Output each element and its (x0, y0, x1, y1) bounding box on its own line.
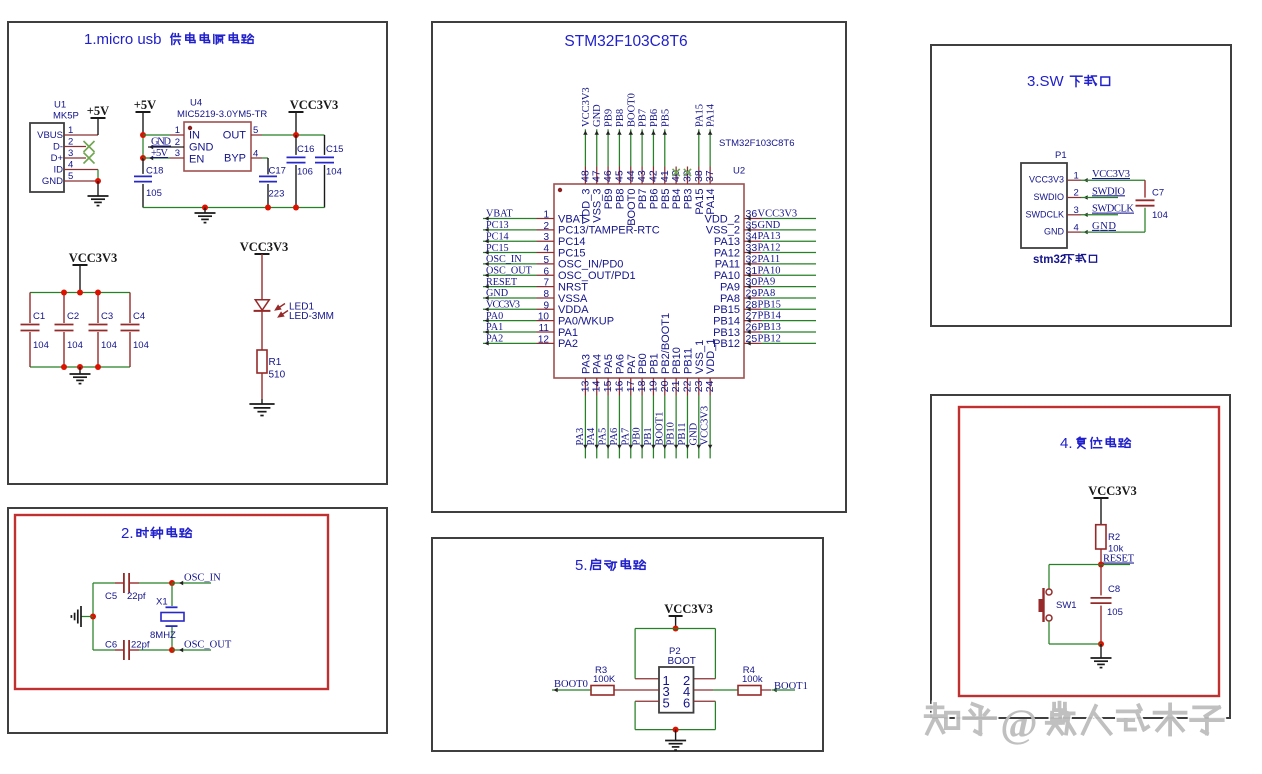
svg-text:23: 23 (693, 380, 705, 392)
svg-text:GND: GND (758, 220, 781, 231)
svg-text:2: 2 (1074, 188, 1079, 199)
svg-text:+5V: +5V (134, 98, 156, 112)
svg-text:PB7: PB7 (637, 189, 649, 210)
svg-text:BOOT1: BOOT1 (774, 681, 808, 692)
svg-text:SWDIO: SWDIO (1092, 186, 1125, 197)
svg-text:104: 104 (133, 340, 149, 351)
svg-text:PB6: PB6 (649, 109, 660, 127)
svg-text:104: 104 (101, 340, 117, 351)
svg-text:+5V: +5V (87, 104, 109, 118)
svg-text:VCC3V3: VCC3V3 (1029, 175, 1064, 185)
svg-text:PB7: PB7 (638, 109, 649, 127)
svg-text:STM32F103C8T6: STM32F103C8T6 (719, 138, 795, 149)
svg-text:PB14: PB14 (713, 315, 740, 327)
svg-text:22: 22 (681, 380, 693, 392)
svg-text:VSS_2: VSS_2 (706, 225, 740, 237)
svg-text:1: 1 (68, 125, 73, 136)
svg-text:223: 223 (269, 189, 285, 200)
svg-text:PA4: PA4 (592, 354, 604, 374)
svg-text:PA7: PA7 (626, 354, 638, 374)
svg-text:U1: U1 (54, 100, 66, 111)
svg-text:510: 510 (269, 370, 286, 381)
svg-text:PB4: PB4 (671, 189, 683, 210)
svg-text:GND: GND (592, 104, 603, 127)
svg-text:22pf: 22pf (131, 640, 150, 651)
svg-text:GND: GND (486, 288, 508, 299)
svg-text:105: 105 (1107, 607, 1123, 618)
svg-text:PA12: PA12 (714, 247, 740, 259)
svg-text:PA10: PA10 (714, 270, 740, 282)
svg-text:4: 4 (253, 149, 258, 160)
svg-text:@: @ (1000, 701, 1037, 746)
svg-text:+5V: +5V (151, 148, 168, 159)
svg-text:GND: GND (151, 137, 171, 148)
svg-text:SWDIO: SWDIO (1034, 192, 1065, 202)
svg-text:1.micro usb: 1.micro usb (84, 31, 162, 48)
svg-text:104: 104 (1152, 210, 1168, 221)
svg-text:3: 3 (175, 148, 180, 159)
svg-text:OUT: OUT (223, 130, 247, 142)
svg-text:PA13: PA13 (714, 236, 740, 248)
svg-text:9: 9 (543, 300, 549, 311)
svg-text:PB10: PB10 (671, 347, 683, 374)
svg-text:4: 4 (68, 160, 73, 171)
svg-text:15: 15 (602, 380, 614, 392)
svg-text:PA10: PA10 (758, 265, 781, 276)
svg-text:4: 4 (1074, 222, 1079, 233)
svg-text:5: 5 (253, 125, 258, 136)
svg-text:32: 32 (746, 253, 758, 265)
svg-text:1: 1 (543, 210, 549, 221)
svg-text:37: 37 (704, 170, 716, 182)
svg-text:VCC3V3: VCC3V3 (700, 406, 711, 446)
svg-text:48: 48 (579, 170, 591, 182)
svg-text:PB3: PB3 (682, 189, 694, 210)
svg-text:IN: IN (189, 130, 200, 142)
svg-text:PA6: PA6 (614, 354, 626, 374)
svg-text:43: 43 (636, 170, 648, 182)
svg-text:PB8: PB8 (614, 189, 626, 210)
svg-text:8MHZ: 8MHZ (150, 630, 176, 641)
svg-text:PB13: PB13 (758, 322, 781, 333)
svg-text:PA8: PA8 (758, 288, 776, 299)
svg-text:GND: GND (189, 142, 214, 154)
svg-text:VCC3V3: VCC3V3 (486, 300, 520, 311)
svg-text:PB10: PB10 (666, 422, 677, 445)
svg-text:PA13: PA13 (758, 231, 781, 242)
svg-text:8: 8 (543, 289, 549, 300)
svg-text:VCC3V3: VCC3V3 (1088, 484, 1137, 498)
svg-text:VCC3V3: VCC3V3 (664, 602, 713, 616)
svg-text:5: 5 (663, 696, 670, 711)
svg-text:2.: 2. (121, 525, 134, 542)
svg-text:PC13/TAMPER-RTC: PC13/TAMPER-RTC (558, 225, 660, 237)
svg-text:4.: 4. (1060, 435, 1073, 452)
svg-text:EN: EN (189, 154, 204, 166)
svg-text:4: 4 (543, 244, 549, 255)
svg-text:C5: C5 (105, 591, 117, 602)
svg-text:19: 19 (647, 380, 659, 392)
svg-text:2: 2 (175, 137, 180, 148)
svg-text:OSC_IN/PD0: OSC_IN/PD0 (558, 259, 623, 271)
svg-text:PC14: PC14 (558, 236, 586, 248)
svg-text:2: 2 (543, 221, 549, 232)
svg-text:24: 24 (704, 380, 716, 392)
svg-text:34: 34 (746, 231, 758, 243)
svg-text:U4: U4 (190, 98, 202, 109)
svg-text:28: 28 (746, 299, 758, 311)
svg-text:5: 5 (68, 171, 73, 182)
svg-text:6: 6 (683, 696, 690, 711)
svg-text:25: 25 (746, 333, 758, 345)
svg-text:OSC_IN: OSC_IN (486, 254, 522, 265)
svg-text:PA9: PA9 (758, 277, 776, 288)
svg-text:11: 11 (539, 323, 550, 334)
svg-text:PA1: PA1 (486, 322, 503, 333)
svg-text:20: 20 (659, 380, 671, 392)
svg-text:PB13: PB13 (713, 327, 740, 339)
svg-text:PB2/BOOT1: PB2/BOOT1 (660, 313, 672, 374)
svg-text:21: 21 (670, 380, 682, 392)
svg-text:VSS_3: VSS_3 (592, 189, 604, 223)
svg-text:PA15: PA15 (694, 104, 705, 127)
svg-text:RESET: RESET (1103, 554, 1135, 565)
svg-text:VCC3V3: VCC3V3 (758, 209, 798, 220)
svg-text:VDD_1: VDD_1 (705, 339, 717, 374)
svg-text:BOOT0: BOOT0 (626, 93, 637, 127)
svg-text:C2: C2 (67, 311, 79, 322)
svg-text:42: 42 (647, 170, 659, 182)
svg-text:BOOT0: BOOT0 (554, 679, 588, 690)
svg-text:PA11: PA11 (715, 259, 740, 271)
svg-text:29: 29 (746, 287, 758, 299)
svg-text:PA2: PA2 (558, 338, 578, 350)
svg-text:PB14: PB14 (758, 311, 782, 322)
svg-text:PB1: PB1 (648, 353, 660, 374)
svg-text:PA5: PA5 (598, 428, 609, 446)
svg-text:C3: C3 (101, 311, 113, 322)
svg-text:VBAT: VBAT (486, 209, 513, 220)
svg-text:BOOT0: BOOT0 (626, 189, 638, 226)
svg-text:PC15: PC15 (486, 243, 509, 254)
svg-text:PB5: PB5 (660, 189, 672, 210)
svg-text:14: 14 (591, 380, 603, 392)
svg-text:VSS_1: VSS_1 (694, 340, 706, 374)
svg-text:PA8: PA8 (720, 293, 740, 305)
svg-text:PA14: PA14 (706, 103, 717, 127)
svg-text:VCC3V3: VCC3V3 (290, 98, 339, 112)
svg-text:U2: U2 (733, 166, 745, 177)
svg-text:VCC3V3: VCC3V3 (581, 87, 592, 127)
svg-text:38: 38 (693, 170, 705, 182)
svg-text:1: 1 (175, 125, 180, 136)
svg-text:PA14: PA14 (705, 189, 717, 215)
svg-text:R2: R2 (1108, 532, 1120, 543)
svg-text:GND: GND (42, 176, 63, 187)
svg-text:6: 6 (543, 266, 549, 277)
svg-text:33: 33 (746, 242, 758, 254)
svg-text:45: 45 (613, 170, 625, 182)
svg-text:46: 46 (602, 170, 614, 182)
svg-text:PC15: PC15 (558, 247, 586, 259)
svg-text:3: 3 (543, 232, 549, 243)
svg-text:C18: C18 (146, 166, 163, 177)
svg-text:5: 5 (543, 255, 549, 266)
svg-text:VCC3V3: VCC3V3 (1092, 169, 1130, 180)
svg-text:GND: GND (1092, 221, 1116, 232)
svg-text:ID: ID (54, 165, 64, 176)
svg-text:stm32: stm32 (1033, 254, 1066, 266)
svg-text:41: 41 (659, 170, 671, 182)
svg-text:MIC5219-3.0YM5-TR: MIC5219-3.0YM5-TR (177, 109, 267, 120)
svg-text:C8: C8 (1108, 584, 1120, 595)
svg-text:C16: C16 (297, 144, 314, 155)
svg-text:VDDA: VDDA (558, 304, 589, 316)
svg-text:PA9: PA9 (720, 281, 740, 293)
svg-text:PB1: PB1 (643, 427, 654, 445)
svg-text:5.: 5. (575, 557, 588, 574)
svg-text:PB0: PB0 (637, 353, 649, 374)
svg-text:C1: C1 (33, 311, 45, 322)
svg-text:PB11: PB11 (677, 423, 688, 446)
svg-text:P1: P1 (1055, 150, 1067, 161)
svg-text:3.SW: 3.SW (1027, 73, 1065, 90)
svg-text:PA6: PA6 (609, 428, 620, 446)
svg-text:D-: D- (53, 142, 63, 153)
svg-text:PC14: PC14 (486, 231, 509, 242)
svg-text:31: 31 (746, 265, 758, 277)
svg-text:VDD_3: VDD_3 (580, 189, 592, 224)
svg-text:C15: C15 (326, 144, 343, 155)
svg-text:PA7: PA7 (620, 428, 631, 446)
svg-text:GND: GND (688, 422, 699, 445)
svg-text:SW1: SW1 (1056, 600, 1077, 611)
svg-text:12: 12 (538, 334, 550, 345)
svg-text:17: 17 (625, 380, 637, 392)
svg-text:OSC_OUT: OSC_OUT (486, 265, 533, 276)
svg-text:SWDCLK: SWDCLK (1025, 209, 1064, 219)
svg-text:BOOT1: BOOT1 (654, 412, 665, 446)
svg-text:22pf: 22pf (127, 591, 146, 602)
svg-text:100K: 100K (593, 674, 616, 685)
svg-text:7: 7 (543, 278, 549, 289)
svg-text:3: 3 (68, 148, 73, 159)
svg-text:PA3: PA3 (575, 428, 586, 446)
svg-text:104: 104 (326, 167, 342, 178)
svg-text:VCC3V3: VCC3V3 (69, 251, 118, 265)
svg-text:PA0/WKUP: PA0/WKUP (558, 315, 614, 327)
svg-text:PB11: PB11 (682, 348, 694, 374)
svg-text:47: 47 (591, 170, 603, 182)
svg-text:1: 1 (1074, 170, 1079, 181)
svg-text:GND: GND (1044, 227, 1065, 237)
svg-text:27: 27 (746, 310, 758, 322)
svg-text:PB15: PB15 (758, 299, 781, 310)
svg-text:100k: 100k (742, 674, 763, 685)
svg-text:C4: C4 (133, 311, 145, 322)
svg-text:104: 104 (67, 340, 83, 351)
svg-text:VSSA: VSSA (558, 293, 588, 305)
svg-text:MK5P: MK5P (53, 111, 79, 122)
svg-text:PA15: PA15 (694, 189, 706, 215)
svg-text:PB12: PB12 (758, 333, 781, 344)
svg-text:104: 104 (33, 340, 49, 351)
svg-text:106: 106 (297, 167, 313, 178)
svg-text:36: 36 (746, 208, 758, 220)
svg-text:STM32F103C8T6: STM32F103C8T6 (564, 33, 687, 50)
svg-text:16: 16 (613, 380, 625, 392)
svg-text:PB6: PB6 (648, 189, 660, 210)
svg-text:OSC_IN: OSC_IN (184, 573, 221, 584)
svg-text:PA0: PA0 (486, 311, 503, 322)
svg-text:PB5: PB5 (660, 109, 671, 127)
svg-text:PB0: PB0 (632, 427, 643, 445)
svg-text:PA3: PA3 (580, 354, 592, 374)
svg-text:35: 35 (746, 219, 758, 231)
svg-text:PB8: PB8 (615, 109, 626, 127)
svg-text:PB15: PB15 (713, 304, 740, 316)
svg-text:PB9: PB9 (604, 109, 615, 127)
svg-text:NRST: NRST (558, 281, 588, 293)
svg-text:X1: X1 (156, 597, 168, 608)
svg-text:PA2: PA2 (486, 334, 503, 345)
svg-text:PA12: PA12 (758, 243, 781, 254)
svg-text:LED-3MM: LED-3MM (289, 311, 334, 322)
svg-text:C6: C6 (105, 640, 117, 651)
svg-text:PB9: PB9 (603, 189, 615, 210)
svg-text:10: 10 (538, 312, 550, 323)
svg-text:OSC_OUT: OSC_OUT (184, 640, 232, 651)
svg-text:PA4: PA4 (586, 427, 597, 445)
svg-text:RESET: RESET (486, 277, 518, 288)
svg-text:VBUS: VBUS (37, 130, 63, 141)
svg-text:VCC3V3: VCC3V3 (240, 240, 289, 254)
svg-text:BYP: BYP (224, 153, 246, 165)
svg-text:C17: C17 (269, 166, 286, 177)
svg-text:OSC_OUT/PD1: OSC_OUT/PD1 (558, 270, 636, 282)
svg-text:BOOT: BOOT (668, 656, 696, 667)
svg-text:13: 13 (579, 380, 591, 392)
svg-text:PA11: PA11 (758, 254, 781, 265)
svg-text:PA5: PA5 (603, 354, 615, 374)
svg-text:C7: C7 (1152, 188, 1164, 199)
svg-text:18: 18 (636, 380, 648, 392)
svg-text:PA1: PA1 (558, 327, 578, 339)
svg-text:26: 26 (746, 322, 758, 334)
svg-text:44: 44 (625, 170, 637, 182)
svg-text:PC13: PC13 (486, 220, 509, 231)
svg-text:30: 30 (746, 276, 758, 288)
svg-text:105: 105 (146, 188, 162, 199)
svg-text:3: 3 (1074, 205, 1079, 216)
svg-text:2: 2 (68, 137, 73, 148)
svg-text:D+: D+ (51, 153, 64, 164)
svg-text:R1: R1 (269, 357, 282, 368)
svg-text:SWDCLK: SWDCLK (1092, 204, 1134, 215)
